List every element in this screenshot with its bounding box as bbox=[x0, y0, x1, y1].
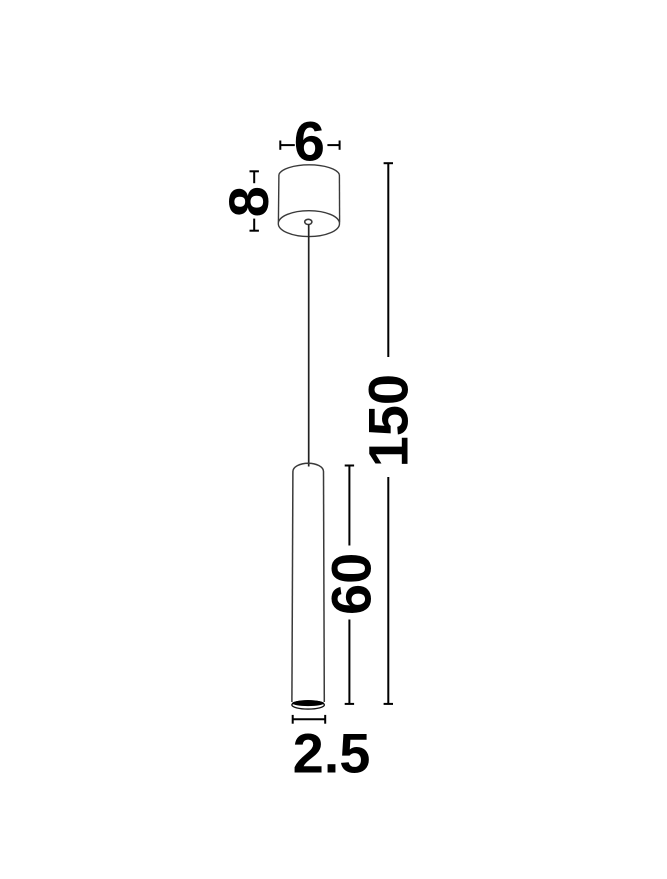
svg-text:6: 6 bbox=[294, 109, 325, 172]
svg-text:150: 150 bbox=[356, 374, 419, 467]
svg-text:60: 60 bbox=[319, 553, 382, 615]
svg-text:2.5: 2.5 bbox=[293, 721, 371, 784]
svg-text:8: 8 bbox=[217, 186, 280, 217]
